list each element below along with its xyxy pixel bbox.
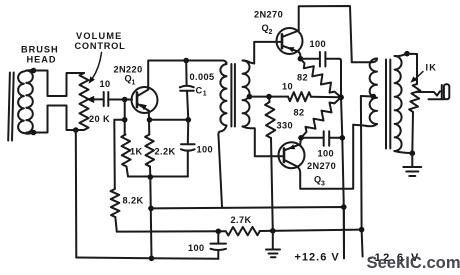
svg-text:2N270: 2N270 [254,10,283,20]
node: Q1 base [122,97,128,103]
resistor 2.7K [226,227,260,236]
brush head transformer left winding [18,72,24,134]
wire Q1 base node down [124,100,126,135]
svg-text:+12.6 V: +12.6 V [295,252,340,264]
wire Q3 emitter up [299,138,302,144]
capacitor 100 (Q2 emitter bypass) [300,52,339,67]
wire center tap to -12.6 line [361,96,373,257]
svg-text:100: 100 [318,149,335,159]
wire 8.2K branch [114,120,124,189]
svg-text:0.005: 0.005 [190,72,215,82]
node: ground tee [270,228,276,234]
wire cap to Q1 base [108,99,132,101]
svg-text:1: 1 [132,80,136,87]
ground (main) [272,231,274,249]
node: output bottom junction [410,150,416,156]
resistor 82 (lower) [301,97,341,138]
svg-text:10: 10 [100,79,111,89]
transistor Q2 2N270 [277,28,303,54]
node: +12.6 stub [341,204,347,210]
node: star junction [338,94,344,100]
secondary top lead to Q2 base [243,42,283,64]
svg-text:BRUSH: BRUSH [21,45,59,55]
node: pot 1K top [404,51,410,57]
node: Q3 cap right junction [340,135,346,141]
svg-text:2N270: 2N270 [307,161,336,171]
svg-text:2: 2 [269,29,273,36]
svg-text:330: 330 [277,121,294,131]
pot wiper arrow [87,96,95,103]
interstage primary bottom lead [218,126,226,207]
svg-text:8.2K: 8.2K [123,196,144,206]
2.7K rail [117,230,226,232]
svg-text:100: 100 [188,243,205,253]
resistor 2.2K [145,135,154,167]
capacitor C1 0.005 [185,61,187,85]
node: top rail / C1 [183,58,189,64]
output transformer primary [372,59,378,63]
svg-text:100: 100 [310,39,327,49]
node: +12.6 line tee [148,206,154,212]
wire transformer bottom to volume pot bottom [26,106,84,133]
capacitor 100 (emitter bypass) [187,120,190,144]
+12.6 supply line [151,207,344,258]
pot wiper to jack [417,91,442,95]
ground (output) [411,153,413,166]
wire Q2 collector loop [299,6,372,62]
wire pot bottom down to bottom rail [75,130,78,258]
node: C1 / 100 junction [186,117,192,123]
node: 100 cap on rail [216,229,222,235]
volume control leader arrow [92,53,102,80]
wire Q2 emitter [299,52,301,59]
resistor 330 [265,97,275,138]
svg-text:10: 10 [282,82,293,92]
node: bottom rail junction [149,255,155,261]
node: -12.6 rail junction [359,227,365,233]
svg-text:20 K: 20 K [89,114,110,124]
brush head transformer core [8,73,14,141]
resistor 10 [288,92,311,101]
svg-text:CONTROL: CONTROL [75,41,126,51]
svg-text:1K: 1K [130,147,143,157]
svg-text:100: 100 [197,145,214,155]
svg-text:82: 82 [294,108,305,118]
capacitor 100 (Q3 emitter bypass) [301,131,342,146]
svg-text:SeekIC.com: SeekIC.com [367,253,460,272]
secondary bottom lead to Q3 base [243,127,285,157]
common emitter-return vertical wire [339,59,344,259]
brush head transformer right winding [26,71,33,133]
node: emitter junction [147,117,153,123]
secondary top lead [395,54,407,56]
capacitor 100 (bottom) [217,231,219,243]
interstage transformer core [231,64,235,127]
wire 2.2K bottom down to bottom rail [150,177,151,258]
wire bottom of 1K/2.2K/100 [128,176,188,178]
interstage transformer secondary [243,61,250,127]
wire Q1 collector to top rail and transformer primary [148,61,223,90]
capacitor 10 [104,92,109,106]
potentiometer 1K [407,54,417,84]
wire Q3 collector [297,125,353,189]
bottom rail [76,258,218,259]
node: 2.2K bottom junction [148,174,154,180]
node: 330 tee [266,94,272,100]
node: Q3 emitter junction [298,135,304,141]
node: pot bottom junction [73,127,79,133]
node: transformer bottom junction [31,130,37,136]
resistor 1K [121,135,130,167]
node: secondary center tap [247,94,253,100]
label 1K leader arrow [414,72,424,81]
transistor Q3 2N270 [279,142,305,168]
svg-text:1: 1 [203,91,207,98]
svg-text:IK: IK [426,63,438,73]
svg-text:82: 82 [297,73,308,83]
resistor 82 (upper) [300,59,341,98]
output transformer core [386,60,390,149]
wire transformer top to volume pot top [26,71,84,97]
node: base divider junction [122,117,128,123]
svg-text:3: 3 [321,181,325,188]
transistor Q1 2N220 [132,87,158,113]
svg-text:2.2K: 2.2K [155,147,176,157]
svg-text:C: C [196,86,203,96]
node: Q2 emitter junction [298,56,304,62]
svg-text:HEAD: HEAD [27,55,57,65]
wire Q1 emitter down [148,111,151,135]
node: output primary center tap [371,94,377,100]
node: transformer top junction [31,68,37,74]
wire emitter node to C1/100 node [150,119,189,121]
secondary bottom lead [394,151,412,153]
svg-text:VOLUME: VOLUME [76,31,123,41]
resistor 8.2K [111,189,120,217]
wire center tap to bias network [249,96,288,98]
interstage transformer primary [223,61,227,65]
svg-text:2.7K: 2.7K [231,215,252,225]
earphone jack [429,85,445,99]
output transformer secondary [395,56,402,151]
potentiometer 20K (volume control) [80,73,89,130]
